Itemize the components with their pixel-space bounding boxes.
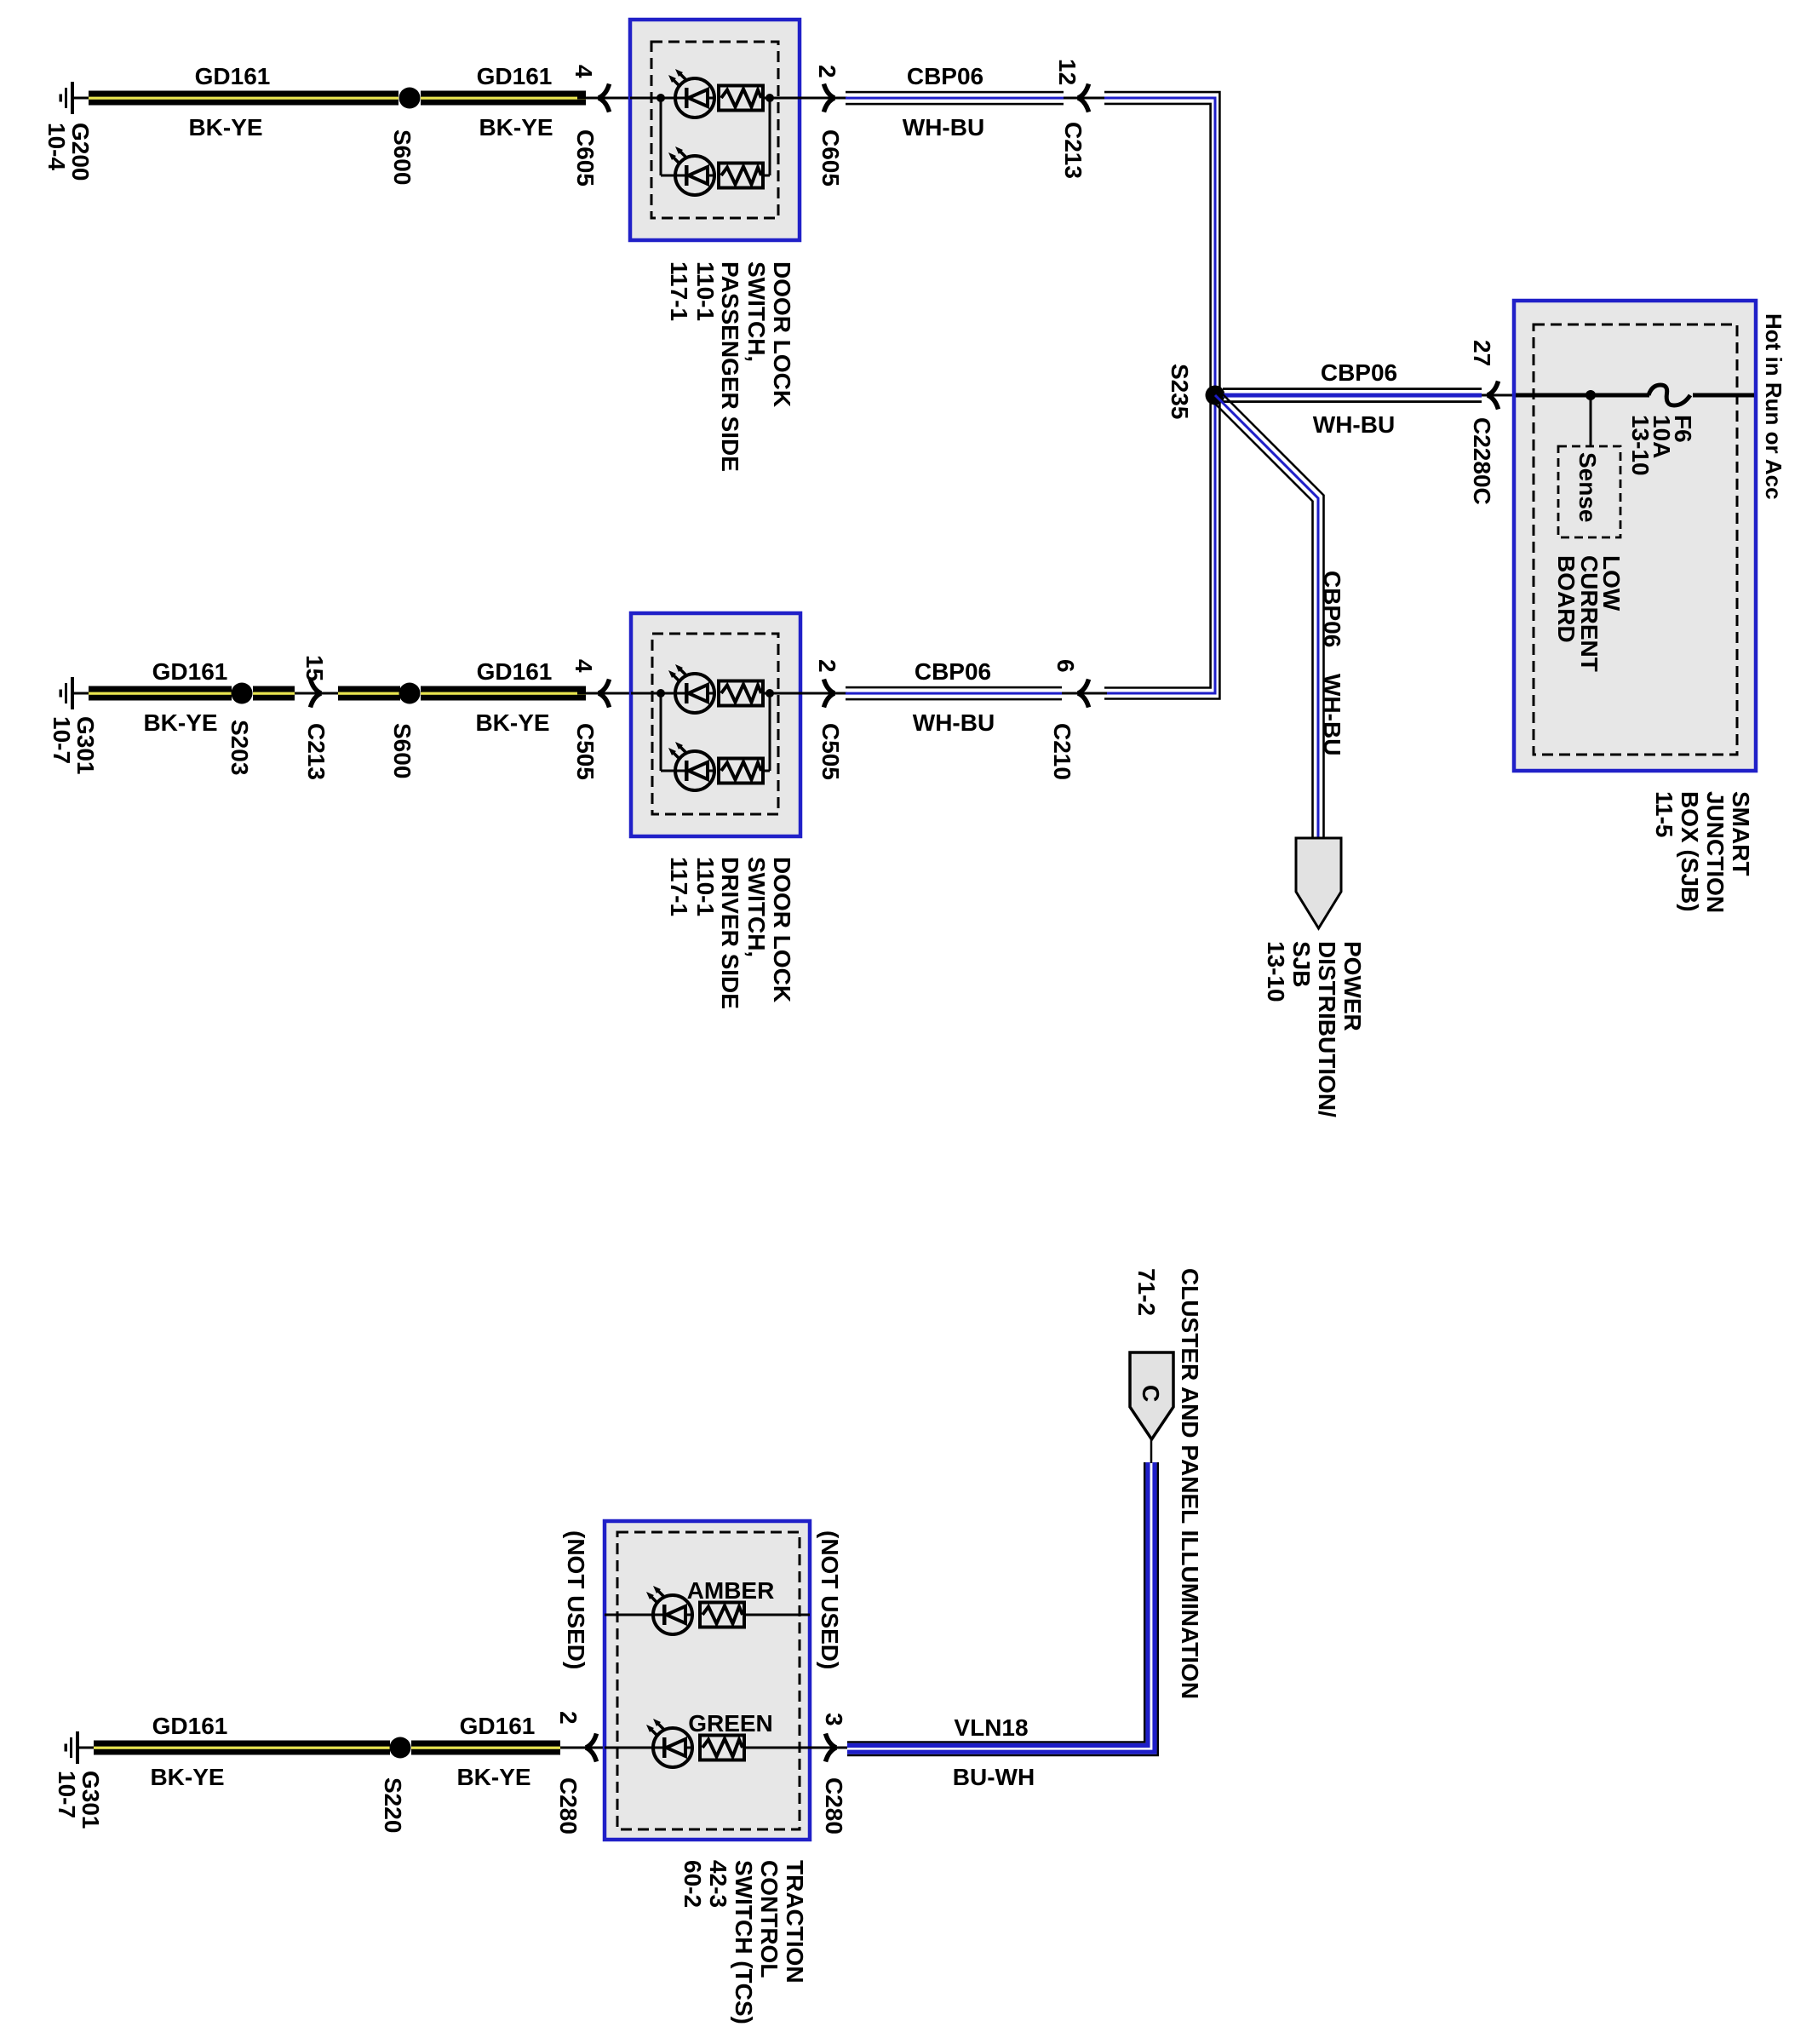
svg-text:CBP06: CBP06 [1321,359,1397,386]
svg-text:13-10: 13-10 [1263,941,1289,1002]
svg-text:12: 12 [1054,59,1081,85]
splice S220 [390,1737,411,1759]
connector C280 pin 3 arrow [826,1734,837,1762]
svg-text:11-5: 11-5 [1651,791,1677,838]
svg-text:JUNCTION: JUNCTION [1702,791,1729,913]
svg-text:110-1: 110-1 [692,857,719,916]
smart junction box (SJB) [1514,301,1756,771]
LED green [646,1719,692,1767]
svg-text:BK-YE: BK-YE [188,114,262,141]
svg-text:Hot in Run or Acc: Hot in Run or Acc [1761,313,1786,500]
svg-text:VLN18: VLN18 [954,1714,1028,1741]
svg-text:117-1: 117-1 [666,261,692,321]
wire out of connector C280 pin 3 [810,1747,847,1749]
svg-text:C: C [1138,1385,1164,1402]
wire inside passenger switch (resistors to pin 2) [763,94,800,175]
svg-text:(NOT USED): (NOT USED) [817,1530,843,1669]
svg-text:PASSENGER SIDE: PASSENGER SIDE [717,261,743,472]
svg-text:BK-YE: BK-YE [456,1764,530,1790]
ground G200 [60,82,89,114]
svg-text:DRIVER SIDE: DRIVER SIDE [717,857,743,1009]
svg-text:BK-YE: BK-YE [475,709,549,736]
svg-text:BU-WH: BU-WH [953,1764,1035,1790]
wire to sense [1590,395,1592,446]
svg-text:SMART: SMART [1728,791,1754,876]
svg-text:S600: S600 [389,723,416,778]
svg-text:WH-BU: WH-BU [913,709,995,736]
wire CBP06 WH-BU (S235 to SJB pin 27) [1223,388,1482,403]
svg-text:3: 3 [821,1713,847,1726]
wire CBP06 WH-BU (C505 to C210) [846,686,1062,701]
wire GD161 BK-YE segment B (S600 to C605) [421,91,586,106]
svg-text:GD161: GD161 [477,658,553,685]
wire amber row (not used) [605,1614,810,1616]
wire inside passenger switch (pin 4 to LEDs) [630,94,675,175]
traction control switch box [605,1521,810,1840]
label G301 10-7 (row2) [49,716,99,775]
connector C505 pin 2 arrow [824,680,835,708]
svg-text:C280: C280 [555,1777,582,1834]
TCS inner dashed boundary [617,1532,800,1829]
svg-text:CBP06: CBP06 [915,658,991,685]
svg-text:CONTROL: CONTROL [756,1860,783,1978]
svg-text:6: 6 [1052,659,1079,673]
svg-text:WH-BU: WH-BU [903,114,984,141]
power distribution off-page arrow [1296,838,1341,928]
svg-text:SJB: SJB [1288,941,1315,987]
connector C2280C pin 27 arrow [1488,382,1499,410]
svg-text:4: 4 [571,65,597,78]
LED amber [646,1586,692,1634]
svg-text:G200: G200 [67,123,94,181]
svg-text:117-1: 117-1 [666,857,692,916]
svg-text:10-4: 10-4 [43,123,70,170]
LED 1 driver [668,664,714,713]
svg-text:GD161: GD161 [477,63,553,89]
svg-text:S600: S600 [389,129,416,185]
wire GD161 BK-YE (G301 to S203) [89,686,232,701]
svg-text:WH-BU: WH-BU [1313,411,1395,438]
svg-text:10-7: 10-7 [54,1771,80,1818]
sense dashed box [1558,446,1620,537]
svg-text:BK-YE: BK-YE [150,1764,224,1790]
wire GD161 BK-YE (S220 to C280) [411,1741,560,1755]
splice S600 [399,88,421,109]
wire into connector C505 pin 4 [577,692,631,695]
svg-text:WH-BU: WH-BU [1319,674,1345,755]
svg-text:S203: S203 [226,720,253,775]
svg-text:2: 2 [814,659,840,673]
wire GD161 BK-YE segment A (ground G200 to splice S600) [89,91,399,106]
svg-text:C210: C210 [1049,723,1075,780]
label LOW CURRENT BOARD [1553,555,1625,672]
svg-text:27: 27 [1469,340,1495,366]
svg-text:2: 2 [555,1711,582,1725]
svg-text:C213: C213 [303,723,330,780]
svg-text:C280: C280 [821,1777,847,1834]
svg-text:CBP06: CBP06 [907,63,983,89]
svg-text:GD161: GD161 [460,1713,536,1739]
svg-text:60-2: 60-2 [679,1860,706,1908]
label DOOR LOCK SWITCH, DRIVER SIDE 110-1 117-1 [666,857,795,1009]
svg-text:GD161: GD161 [152,1713,228,1739]
svg-text:C605: C605 [817,129,844,187]
wire green row inside TCS [605,1747,810,1749]
svg-text:Sense: Sense [1574,452,1601,523]
svg-text:SWITCH,: SWITCH, [743,857,770,957]
svg-text:10-7: 10-7 [49,716,75,764]
splice S203 [232,683,253,704]
svg-text:TRACTION: TRACTION [782,1860,808,1984]
svg-text:BOX (SJB): BOX (SJB) [1677,791,1703,912]
label SMART JUNCTION BOX (SJB) 11-5 [1651,791,1754,913]
wire out of connector C605 pin 2 [800,97,847,100]
svg-text:S235: S235 [1167,364,1193,419]
svg-text:(NOT USED): (NOT USED) [563,1530,589,1669]
connector C505 pin 4 arrow [599,680,610,708]
svg-text:42-3: 42-3 [705,1860,731,1908]
connector C280 pin 2 arrow [586,1734,597,1762]
wire CBP06 WH-BU (S235 diagonal down to power distribution) [1211,391,1324,838]
svg-text:CBP06: CBP06 [1319,571,1345,647]
svg-text:CLUSTER AND PANEL ILLUMINATION: CLUSTER AND PANEL ILLUMINATION [1177,1268,1203,1699]
connector C210 pin 6 arrow [1078,680,1089,708]
off-page connector C (cluster and panel illumination) [1130,1352,1173,1439]
svg-text:4: 4 [571,659,597,673]
junction node (sense tap) [1585,390,1596,400]
svg-text:G301: G301 [72,716,99,775]
svg-text:DOOR LOCK: DOOR LOCK [769,857,795,1002]
svg-text:C605: C605 [572,129,599,187]
wire stub to C connector [1150,1439,1153,1463]
svg-text:BK-YE: BK-YE [479,114,553,141]
svg-text:GD161: GD161 [152,658,228,685]
wire GD161 (C213 to S600) [338,686,400,701]
svg-text:BK-YE: BK-YE [143,709,217,736]
resistor amber [700,1603,744,1628]
ground G301 (row3) [65,1731,95,1764]
label TRACTION CONTROL SWITCH (TCS) 42-3 60-2 [679,1860,808,2024]
svg-text:GD161: GD161 [195,63,271,89]
svg-text:13-10: 13-10 [1627,415,1654,476]
label G200 10-4 [43,123,94,181]
svg-text:C505: C505 [572,723,599,780]
svg-text:C505: C505 [817,723,844,780]
svg-text:2: 2 [814,65,840,78]
connector C605 pin 2 arrow [824,84,835,112]
svg-text:POWER: POWER [1339,941,1366,1031]
svg-text:71-2: 71-2 [1133,1268,1160,1316]
fuse F6 10A [1649,385,1690,405]
LED 1 passenger (unlock indicator) [668,69,714,118]
wire inside driver switch (resistors to pin 2) [763,689,800,771]
passenger door lock switch box [630,20,800,240]
wire VLN18 BU-WH (C280 to cluster illumination) [847,1462,1158,1755]
resistor 2 driver [719,759,763,784]
svg-text:S220: S220 [380,1777,406,1833]
wire inside SJB (hot feed) [1516,393,1754,398]
LED 2 driver [668,742,714,790]
resistor 1 driver [719,681,763,706]
passenger switch inner dashed boundary [651,42,778,218]
wire GD161 BK-YE (S600 to C505) [421,686,586,701]
resistor 1 passenger [719,86,763,111]
wire into connector C280 pin 2 [560,1747,605,1749]
wire GD161 BK-YE (G301 to S220) [94,1741,390,1755]
svg-text:DOOR LOCK: DOOR LOCK [769,261,795,407]
svg-text:BOARD: BOARD [1553,555,1580,643]
svg-text:G301: G301 [77,1771,104,1829]
wire into connector C605 pin 4 [577,97,630,100]
resistor green [700,1736,744,1760]
wire CBP06 WH-BU (C213 to splice S235, corner run) [1104,92,1219,698]
svg-text:110-1: 110-1 [692,261,719,321]
driver switch inner dashed boundary [652,634,778,814]
label G301 10-7 (row3) [54,1771,104,1829]
splice S235 [1206,386,1225,405]
SJB inner dashed boundary [1534,324,1737,755]
splice S600 (row2) [399,683,421,704]
resistor 2 passenger [719,164,763,188]
svg-text:C2280C: C2280C [1469,417,1495,505]
svg-text:15: 15 [301,655,328,681]
wire GD161 (S203 to C213) [253,686,295,701]
wire CBP06 WH-BU (C605 to C213) [846,91,1064,106]
label DOOR LOCK SWITCH, PASSENGER SIDE 110-1 117-1 [666,261,795,472]
driver door lock switch box [631,613,800,836]
connector C213 pin 15 arrow [311,680,322,708]
wire through connector C213 pin 15 [295,692,338,695]
label F6 10A 13-10 [1627,415,1696,476]
svg-text:GREEN: GREEN [688,1710,773,1737]
svg-text:AMBER: AMBER [687,1577,775,1604]
connector C213 pin 12 arrow [1078,84,1089,112]
ground G301 (row2) [60,677,89,709]
wire through connector C210 pin 6 [1062,692,1107,695]
label POWER DISTRIBUTION/ SJB 13-10 [1263,941,1366,1117]
wire inside driver switch (pin 4 to LEDs) [631,689,675,771]
wire into connector C2280C pin 27 [1482,394,1517,397]
svg-text:SWITCH,: SWITCH, [743,261,770,362]
svg-text:DISTRIBUTION/: DISTRIBUTION/ [1314,941,1340,1117]
LED 2 passenger (lock indicator) [668,146,714,195]
wire through connector C213 pin 12 [1064,97,1107,100]
svg-text:C213: C213 [1060,122,1087,179]
svg-text:SWITCH (TCS): SWITCH (TCS) [731,1860,757,2024]
connector C605 pin 4 arrow [599,84,610,112]
wire out of connector C505 pin 2 [800,692,847,695]
